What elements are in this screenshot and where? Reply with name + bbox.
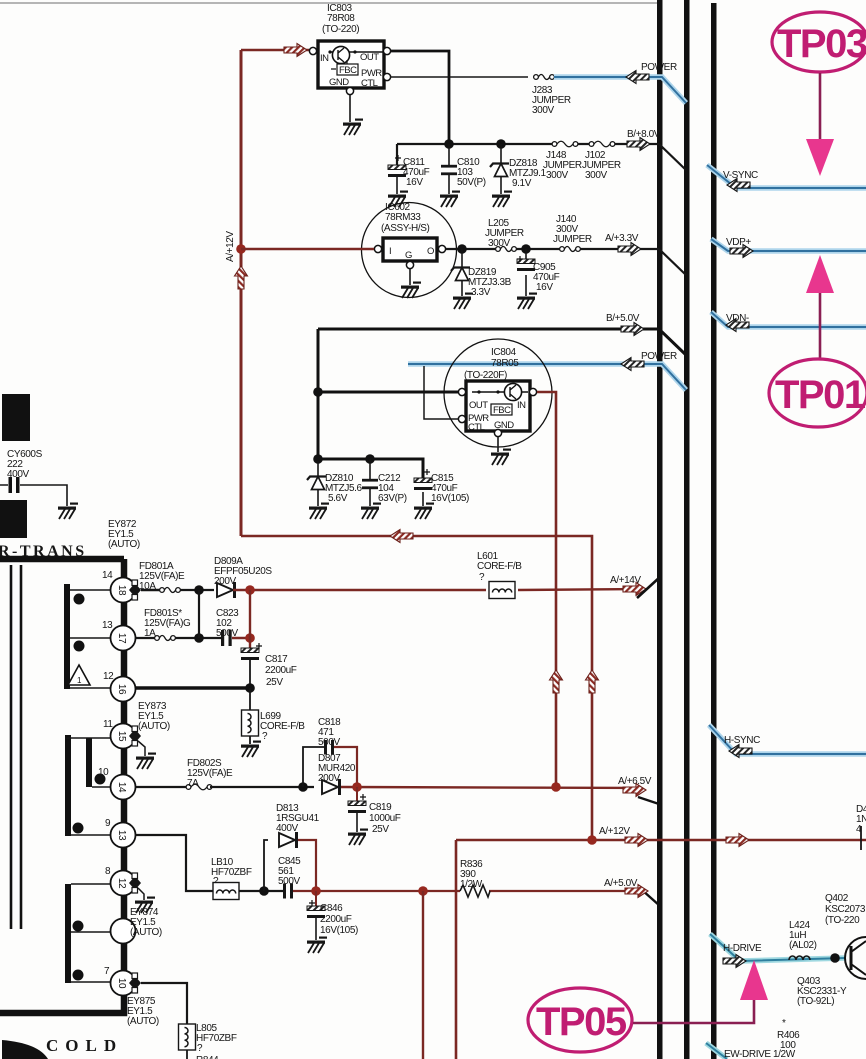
- node POWER label top: [641, 62, 677, 73]
- junction D813 anode: [259, 886, 269, 896]
- wire A/+12V vertical rail: [240, 50, 243, 536]
- ground EY873: [136, 753, 156, 770]
- wire EW-DRIVE: [706, 1043, 727, 1059]
- capacitor C823: [216, 608, 239, 646]
- svg-text:300V: 300V: [546, 170, 568, 181]
- bus line 1: [657, 0, 663, 1059]
- svg-text:78R08: 78R08: [327, 13, 355, 24]
- svg-text:TP05: TP05: [536, 1000, 627, 1044]
- junction DZ819: [457, 244, 467, 254]
- node A/+6.5V label: [618, 776, 652, 787]
- polarity dot winding C: [95, 774, 106, 785]
- wire pin16 to C817 bottom: [135, 686, 250, 689]
- test point TP05 oval: [528, 988, 632, 1052]
- svg-text:(AUTO): (AUTO): [138, 721, 170, 732]
- node VDP+ label: [726, 237, 751, 248]
- svg-text:13: 13: [102, 620, 113, 631]
- svg-text:16V(105): 16V(105): [320, 925, 358, 936]
- svg-text:25V: 25V: [372, 824, 389, 835]
- arrow A/+12V left: [625, 834, 648, 847]
- component block upper left: [2, 394, 30, 441]
- svg-text:16: 16: [116, 684, 127, 695]
- junction C905: [521, 244, 531, 254]
- svg-text:8: 8: [105, 866, 111, 877]
- wire IC602 output to A/+3.3V: [446, 249, 686, 275]
- transistor Q403: [797, 937, 866, 1007]
- ground IC804: [491, 449, 511, 466]
- pin circle 10: [111, 971, 136, 996]
- wire V-SYNC: [707, 165, 866, 188]
- svg-text:3.3V: 3.3V: [471, 287, 491, 298]
- svg-text:B/+8.0V: B/+8.0V: [627, 129, 661, 140]
- winding middle inner bar: [86, 738, 92, 787]
- svg-text:EW-DRIVE 1/2W: EW-DRIVE 1/2W: [724, 1049, 796, 1059]
- svg-text:IN: IN: [517, 400, 526, 411]
- polarity dot winding D: [73, 823, 84, 834]
- jumper J102: [582, 141, 621, 181]
- svg-text:C819: C819: [369, 802, 392, 813]
- svg-text:10A: 10A: [139, 581, 156, 592]
- arrow POWER mid: [621, 358, 644, 371]
- ground C846: [307, 937, 327, 954]
- arrow left on +12V branch: [390, 530, 413, 543]
- wire A/+5.0V rail: [293, 890, 646, 892]
- test point TP05 arrow: [633, 960, 768, 1023]
- svg-text:12: 12: [103, 671, 114, 682]
- svg-text:14: 14: [102, 570, 113, 581]
- arrow up on IC804 IN feed: [550, 670, 563, 693]
- svg-text:1A: 1A: [144, 628, 156, 639]
- wire winding tap to pin 10: [71, 981, 111, 983]
- pin IC602 output: [438, 245, 445, 252]
- transformer core lines: [11, 565, 21, 929]
- svg-text:POWER: POWER: [641, 351, 677, 362]
- junction +5V riser: [418, 886, 428, 896]
- ground L699: [241, 741, 261, 758]
- junction Q403 base: [830, 953, 840, 963]
- wire A/+6.5V rail: [341, 787, 640, 788]
- svg-text:10: 10: [98, 767, 109, 778]
- ground EY874: [135, 897, 155, 914]
- svg-text:IC804: IC804: [491, 347, 517, 358]
- svg-text:H-DRIVE: H-DRIVE: [723, 943, 762, 954]
- svg-text:200V: 200V: [318, 773, 340, 784]
- ground IC803: [343, 119, 363, 136]
- svg-text:?: ?: [479, 572, 485, 583]
- junction DZ810: [313, 454, 323, 464]
- capacitor C819: [348, 787, 401, 835]
- capacitor C810: [441, 144, 486, 194]
- wire winding tap to pin 12: [71, 883, 111, 885]
- svg-text:(TO-92L): (TO-92L): [797, 996, 834, 1007]
- arrow A/+3.3V: [618, 243, 641, 256]
- ground IC602: [401, 282, 421, 299]
- svg-text:1: 1: [77, 676, 82, 685]
- svg-text:A/+12V: A/+12V: [225, 231, 236, 262]
- junction D807 cathode: [352, 782, 362, 792]
- scan border artifact top: [0, 2, 657, 4]
- corner scan blob: [2, 1040, 48, 1059]
- test point TP03 arrow: [806, 73, 834, 176]
- capacitor CY600S: [0, 449, 67, 506]
- svg-text:O: O: [427, 246, 434, 257]
- wire A/+12V lower rail: [456, 840, 866, 1059]
- bus line 2: [684, 0, 690, 1059]
- polarity dot winding B: [74, 641, 85, 652]
- node H-SYNC label: [724, 735, 760, 746]
- wire winding tap to pin 16: [70, 687, 111, 689]
- wire winding tap to blank pin: [71, 931, 111, 933]
- capacitor C818: [303, 717, 357, 787]
- svg-text:GND: GND: [329, 77, 349, 88]
- svg-text:A/+12V: A/+12V: [599, 826, 630, 837]
- svg-text:10: 10: [116, 978, 127, 989]
- pin circle 13: [111, 823, 136, 848]
- ground DZ810: [309, 503, 329, 520]
- ground C815: [414, 503, 434, 520]
- svg-text:V-SYNC: V-SYNC: [723, 170, 758, 181]
- svg-text:OUT: OUT: [469, 400, 488, 411]
- svg-text:18: 18: [116, 585, 127, 596]
- wire winding tap to pin 15: [65, 737, 111, 739]
- svg-text:POWER: POWER: [641, 62, 677, 73]
- wire H-SYNC: [709, 725, 866, 754]
- resistor R844 partial: [196, 1055, 219, 1059]
- junction C823 left: [194, 633, 204, 643]
- pin circle 12: [111, 871, 136, 896]
- jumper J283: [532, 75, 571, 117]
- svg-text:OUT: OUT: [360, 52, 379, 63]
- node pin label 12: [103, 671, 114, 682]
- node POWER label mid: [641, 351, 677, 362]
- inductor L699: [242, 688, 306, 744]
- svg-text:VDP+: VDP+: [726, 237, 751, 248]
- arrow A/+5.0V: [625, 885, 648, 898]
- svg-text:4: 4: [856, 824, 862, 835]
- arrow B/+5.0V: [621, 323, 644, 336]
- junction +12V riser bottom: [587, 835, 597, 845]
- wire VDP+: [711, 239, 866, 251]
- wire A/+12V to IC602 input: [241, 248, 374, 251]
- ground CY600S: [58, 503, 78, 520]
- test point TP03 oval: [772, 12, 866, 72]
- svg-text:300V: 300V: [488, 238, 510, 249]
- svg-text:Q402: Q402: [825, 893, 849, 904]
- zener DZ810: [307, 461, 362, 506]
- svg-text:R844: R844: [196, 1055, 219, 1059]
- svg-text:400V: 400V: [276, 823, 298, 834]
- node pin label 9: [105, 818, 111, 829]
- node A/+14V label: [610, 575, 641, 586]
- svg-text:16V: 16V: [406, 177, 423, 188]
- node pin label 14: [102, 570, 113, 581]
- svg-text:500V: 500V: [318, 737, 340, 748]
- transistor Q402 label: [825, 893, 866, 926]
- node B/+8.0V label: [627, 129, 661, 140]
- svg-text:17: 17: [116, 633, 127, 644]
- svg-text:7A: 7A: [187, 778, 199, 789]
- ferrite bead EY875: [127, 973, 159, 1027]
- polarity dot winding A: [74, 594, 85, 605]
- warning triangle: [68, 665, 90, 685]
- svg-text:(TO-220: (TO-220: [825, 915, 860, 926]
- svg-text:(AUTO): (AUTO): [108, 539, 140, 550]
- svg-text:16V: 16V: [536, 282, 553, 293]
- capacitor C811: [388, 155, 430, 194]
- svg-text:A/+3.3V: A/+3.3V: [605, 233, 639, 244]
- svg-text:?: ?: [197, 1043, 203, 1054]
- svg-text:300V: 300V: [585, 170, 607, 181]
- wire +5V riser down: [422, 891, 424, 1059]
- resistor R406 label: [777, 1018, 800, 1051]
- ground C810: [440, 191, 460, 208]
- svg-text:14: 14: [116, 782, 127, 793]
- junction C818 left: [298, 782, 308, 792]
- wire B/+5.0V rail: [318, 329, 686, 355]
- wire FD802S to D807: [210, 786, 314, 788]
- node pin label 8: [105, 866, 111, 877]
- junction C817 top: [245, 633, 255, 643]
- pin circle blank: [111, 919, 136, 944]
- junction A/+12V to IC602: [236, 244, 246, 254]
- junction C810: [444, 139, 454, 149]
- junction C212: [365, 454, 375, 464]
- svg-text:7: 7: [104, 966, 110, 977]
- fuse FD802S: [135, 758, 233, 790]
- svg-text:JUMPER: JUMPER: [553, 234, 592, 245]
- svg-text:COLD: COLD: [46, 1036, 123, 1055]
- test point TP01 arrow: [806, 255, 834, 358]
- wire POWER blue mid: [408, 364, 686, 390]
- node B/+5.0V label: [606, 313, 640, 324]
- op-amp U IC602 regulator 78RM33: [362, 202, 457, 298]
- wire winding tap to pin 13: [71, 834, 111, 836]
- pin 2 IC803 GND: [346, 87, 353, 94]
- diode D809A: [214, 556, 272, 598]
- wire POWER blue top: [554, 77, 686, 103]
- svg-text:A/+5.0V: A/+5.0V: [604, 878, 638, 889]
- jumper L205: [485, 218, 524, 252]
- node EW-DRIVE label: [724, 1049, 796, 1059]
- wire IC804 OUT: [318, 391, 458, 394]
- junction C846 top: [311, 886, 321, 896]
- wire DZ810 C212 C815 rail: [318, 459, 423, 478]
- component block lower left: [0, 500, 27, 538]
- op-amp U IC804 regulator 78R05: [444, 339, 552, 447]
- wire A/+12V rail top corner to IC803 IN: [241, 49, 309, 52]
- svg-text:CTL: CTL: [361, 78, 378, 89]
- svg-text:16V(105): 16V(105): [431, 493, 469, 504]
- svg-text:13: 13: [116, 830, 127, 841]
- arrow H-SYNC: [729, 745, 752, 758]
- wire IC602 gnd to ground: [409, 269, 411, 285]
- pin circle 16: [111, 677, 136, 702]
- pin circle 14: [111, 775, 136, 800]
- inductor LB10: [211, 857, 252, 900]
- svg-text:TP01: TP01: [775, 373, 866, 417]
- label COLD: [46, 1036, 123, 1055]
- wire A/+14V bus entry diagonal: [637, 577, 660, 598]
- zener DZ819: [451, 249, 512, 298]
- svg-text:78R05: 78R05: [491, 358, 519, 369]
- svg-text:TP03: TP03: [777, 22, 866, 66]
- wire winding tap to pin 17: [70, 637, 111, 639]
- pin 4 IC803 OUT: [383, 47, 390, 54]
- fuse FD801A: [139, 561, 185, 593]
- svg-text:300V: 300V: [532, 105, 554, 116]
- arrow H-DRIVE: [723, 955, 746, 968]
- node V-SYNC label: [723, 170, 758, 181]
- wire fuse to D809A node: [180, 589, 214, 591]
- junction D809A anode: [194, 585, 204, 595]
- pin IC602 input: [374, 245, 381, 252]
- inductor L601: [477, 551, 522, 599]
- ferrite bead EY873: [129, 701, 170, 756]
- node VDN- label: [726, 313, 749, 324]
- jumper J148: [543, 141, 582, 181]
- wire winding tap to pin 18: [70, 589, 111, 591]
- pin IC804 PWR CTL: [458, 415, 465, 422]
- pin circle 17: [111, 626, 136, 651]
- arrow V-SYNC: [727, 179, 750, 192]
- node A/+12V label: [599, 826, 630, 837]
- ground C212: [361, 503, 381, 520]
- svg-text:63V(P): 63V(P): [378, 493, 407, 504]
- svg-text:11: 11: [103, 719, 113, 730]
- svg-text:(AL02): (AL02): [789, 940, 817, 951]
- zener DZ818: [490, 144, 546, 194]
- svg-text:G: G: [405, 250, 412, 261]
- junction DZ818: [496, 139, 506, 149]
- fuse FD801S: [135, 608, 191, 641]
- svg-text:200V: 200V: [214, 576, 236, 587]
- junction IC804 feed: [551, 782, 561, 792]
- ferrite bead EY874: [129, 873, 162, 938]
- transformer pin spine: [0, 559, 124, 1013]
- node pin label 13: [102, 620, 113, 631]
- ferrite bead EY872: [108, 519, 141, 600]
- ground DZ818: [492, 191, 512, 208]
- capacitor C212: [362, 459, 407, 506]
- wire VDN-: [711, 312, 866, 327]
- wire A/+6.5V bus entry diagonal: [638, 797, 659, 804]
- wire winding tap to pin 14: [92, 786, 111, 788]
- capacitor C846: [307, 891, 358, 940]
- svg-text:?: ?: [262, 731, 268, 742]
- polarity dot winding E: [73, 921, 84, 932]
- label R-TRANS: [0, 543, 87, 560]
- svg-text:25V: 25V: [266, 677, 283, 688]
- wire IC804 IN from +6.5V rail: [537, 392, 556, 786]
- capacitor C905: [517, 249, 560, 296]
- wire D809A to L601 rail (A/+14V): [233, 589, 640, 590]
- wire IC804 GND to ground: [497, 437, 499, 452]
- svg-text:5.6V: 5.6V: [328, 493, 348, 504]
- arrow into IC803 IN: [284, 44, 307, 57]
- arrow up on +12V riser: [586, 670, 599, 693]
- arrow B/+8.0V: [627, 138, 650, 151]
- jumper J140: [553, 214, 592, 252]
- pin IC602 gnd: [406, 261, 413, 268]
- diode D813: [264, 803, 320, 891]
- node A/+3.3V label: [605, 233, 639, 244]
- pin IC804 GND: [494, 429, 501, 436]
- wire IC803 OUT down to +8V rail: [390, 51, 449, 144]
- wire +5V vertical spine: [317, 329, 320, 461]
- op-amp U IC803 regulator 78R08: [318, 3, 384, 89]
- wire pin10 to L805: [141, 983, 187, 1025]
- ground C905: [517, 293, 537, 310]
- svg-text:1000uF: 1000uF: [369, 813, 401, 824]
- svg-text:2200uF: 2200uF: [265, 665, 297, 676]
- pin 1 IC803 IN: [309, 47, 316, 54]
- svg-text:9.1V: 9.1V: [512, 178, 532, 189]
- winding lower bar: [65, 884, 71, 983]
- test point TP01 oval: [769, 359, 866, 427]
- inductor L805: [179, 1023, 237, 1059]
- wire A/+12V branch to lower area: [241, 536, 592, 840]
- svg-text:50V(P): 50V(P): [457, 177, 486, 188]
- bus line 3: [711, 3, 717, 1059]
- pin circle 15: [111, 724, 136, 749]
- wire IC803 PWR CTL to J283: [390, 76, 528, 78]
- node pin label 7: [104, 966, 110, 977]
- svg-text:(ASSY-H/S): (ASSY-H/S): [381, 223, 429, 234]
- ground C819: [348, 829, 368, 846]
- capacitor C815: [414, 469, 469, 506]
- pin 3 IC803 PWR CTL: [383, 73, 390, 80]
- arrow A/+6.5V: [623, 784, 646, 797]
- node A/+5.0V label: [604, 878, 638, 889]
- svg-text:FBC: FBC: [493, 405, 511, 416]
- arrow POWER top: [626, 71, 649, 84]
- svg-text:78RM33: 78RM33: [385, 212, 421, 223]
- svg-text:FBC: FBC: [339, 65, 357, 76]
- wire pin13 to LB10: [135, 835, 214, 891]
- svg-text:CORE-F/B: CORE-F/B: [477, 561, 522, 572]
- arrow A/+14V: [623, 583, 646, 596]
- wire fuse FD801S to C823: [175, 637, 221, 639]
- wire H-DRIVE: [710, 934, 845, 961]
- capacitor C817: [241, 643, 297, 688]
- node pin label 11: [103, 719, 113, 730]
- wire A/+5.0V bus entry diagonal: [642, 890, 660, 906]
- arrow A/+12V right: [726, 834, 749, 847]
- svg-text:(TO-220): (TO-220): [322, 24, 359, 35]
- svg-text:15: 15: [116, 731, 127, 742]
- svg-text:CTL: CTL: [468, 422, 485, 433]
- wire LB10 to C845: [239, 890, 283, 892]
- svg-text:C846: C846: [320, 903, 343, 914]
- svg-text:KSC2073: KSC2073: [825, 904, 866, 915]
- resistor R836: [460, 859, 490, 897]
- diode D4xx partial right edge: [856, 804, 866, 850]
- svg-text:I: I: [389, 246, 391, 257]
- pin IC804 OUT: [458, 388, 465, 395]
- junction +5V spine at OUT: [313, 387, 323, 397]
- pin IC804 IN: [529, 388, 536, 395]
- svg-text:500V: 500V: [278, 876, 300, 887]
- arrow VDP+: [730, 245, 753, 258]
- svg-text:A/+6.5V: A/+6.5V: [618, 776, 652, 787]
- transformer frame top bar: [0, 556, 124, 563]
- node A/+12V label (vertical): [225, 231, 236, 262]
- svg-text:2200uF: 2200uF: [320, 914, 352, 925]
- arrow VDN-: [726, 319, 749, 332]
- ground C811: [388, 191, 408, 208]
- svg-text:IN: IN: [320, 53, 329, 64]
- wire IC803 GND to ground: [349, 95, 351, 122]
